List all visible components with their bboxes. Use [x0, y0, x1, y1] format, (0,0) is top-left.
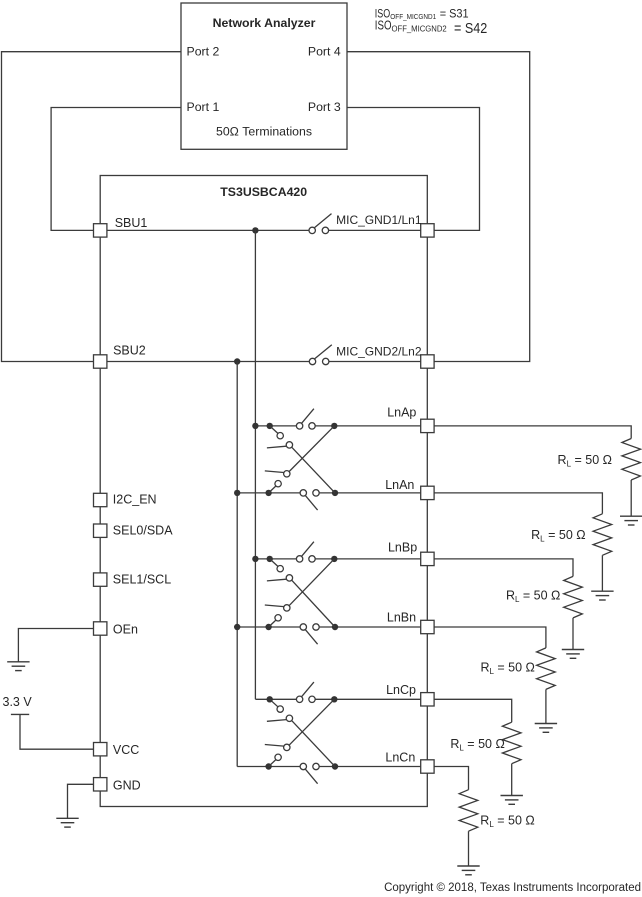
switch cross C2 contact a: [275, 754, 281, 760]
ground at OEn: [7, 662, 29, 671]
pin LnAn: [421, 486, 434, 499]
switch cross B2 lever: [265, 605, 284, 607]
svg-text:= S31: = S31: [440, 6, 469, 20]
svg-text:MIC_GND2/Ln2: MIC_GND2/Ln2: [336, 344, 422, 358]
wire cross B stub from n: [269, 620, 276, 627]
switch cross A1 contact b: [286, 442, 292, 448]
switch cross B1 lever: [267, 579, 286, 581]
switch cross A1 lever: [267, 446, 286, 448]
switch cross A1 contact a: [277, 433, 283, 439]
node LnBn junction 2: [265, 624, 271, 630]
pin SBU2: [94, 355, 107, 368]
wire LnAp to resistor RL1: [434, 426, 631, 439]
switch cross B2 contact a: [275, 615, 281, 621]
wire resistor RL6 to ground: [468, 831, 470, 866]
switch cross A2 contact b: [284, 471, 290, 477]
switch cross B1 contact a: [277, 566, 283, 572]
wire LnAp line left: [255, 425, 296, 427]
wire cross B1 diagonal to n: [292, 580, 335, 627]
svg-text:Port 3: Port 3: [308, 100, 341, 114]
switch S1 contact b: [322, 227, 328, 233]
resistor RL2: [593, 514, 612, 556]
wire switch S1 to MIC_GND1: [329, 229, 421, 231]
wire SBU1 to switch S1: [107, 229, 309, 231]
wire OEn to ground: [18, 629, 93, 662]
switch LnAn contact a: [300, 490, 306, 496]
svg-text:= S42: = S42: [454, 20, 487, 37]
switch S2 contact b: [323, 358, 329, 364]
svg-text:LnBn: LnBn: [387, 610, 416, 624]
svg-text:SEL0/SDA: SEL0/SDA: [113, 524, 173, 538]
wire resistor RL5 to ground: [511, 764, 513, 796]
switch LnBn contact a: [300, 624, 306, 630]
node LnCn junction 3: [332, 763, 338, 769]
svg-text:LnCp: LnCp: [386, 683, 416, 697]
svg-text:Port 1: Port 1: [187, 100, 220, 114]
wire LnCp line left: [255, 698, 296, 700]
resistor RL4: [537, 648, 556, 690]
svg-text:RL = 50 Ω: RL = 50 Ω: [506, 588, 560, 604]
wire LnCn line left: [237, 766, 300, 768]
switch S2 contact a: [309, 358, 315, 364]
pin GND: [94, 778, 107, 791]
node LnCn junction 2: [265, 763, 271, 769]
wire cross A1 diagonal to n: [292, 447, 335, 493]
svg-text:Copyright © 2018, Texas Instru: Copyright © 2018, Texas Instruments Inco…: [384, 882, 641, 894]
switch S1 contact a: [309, 227, 315, 233]
switch LnCp lever: [302, 682, 314, 697]
node LnBp bus1 junction: [252, 556, 258, 562]
wire LnCp to resistor RL5: [434, 699, 512, 722]
ground below RL6: [457, 866, 479, 875]
svg-text:RL = 50 Ω: RL = 50 Ω: [531, 528, 585, 544]
node LnBn junction 3: [332, 624, 338, 630]
wire LnCp line right: [315, 698, 421, 700]
wire cross A2 diagonal to p: [289, 426, 334, 472]
wire cross B2 diagonal to p: [289, 559, 334, 606]
switch cross B1 contact b: [286, 575, 292, 581]
switch LnCp contact b: [309, 696, 315, 702]
network analyzer box: [181, 3, 347, 149]
wire cross A stub from n: [269, 486, 276, 493]
node LnAp junction 2: [267, 423, 273, 429]
node LnAn bus2 junction: [234, 490, 240, 496]
ground at GND pin: [56, 818, 78, 827]
svg-text:TS3USBCA420: TS3USBCA420: [220, 185, 307, 199]
pin LnCp: [421, 693, 434, 706]
wire LnAn line left: [237, 492, 300, 494]
ground below RL5: [501, 796, 523, 805]
wire resistor RL2 to ground: [601, 555, 603, 591]
ISO_OFF_MICGND2 = S42 label: [375, 17, 488, 37]
wire SBU2 bus vertical: [236, 362, 238, 767]
ISO_OFF_MICGND1 = S31 label: [375, 6, 469, 21]
pin VCC: [94, 743, 107, 756]
pin LnCn: [421, 760, 434, 773]
ground below RL1: [620, 516, 642, 525]
pin SEL1/SCL: [94, 573, 107, 586]
pin MIC_GND2/Ln2: [421, 355, 434, 368]
wire port 3 to MIC_GND1: [347, 108, 480, 231]
switch LnAn lever: [305, 496, 317, 511]
pin MIC_GND1/Ln1: [421, 224, 434, 237]
wire SBU2 to switch S2: [107, 361, 309, 363]
svg-text:Network Analyzer: Network Analyzer: [213, 16, 316, 30]
switch cross C1 contact a: [277, 706, 283, 712]
switch LnAp contact b: [309, 423, 315, 429]
svg-text:LnAp: LnAp: [387, 406, 416, 420]
svg-text:RL = 50 Ω: RL = 50 Ω: [480, 661, 534, 677]
svg-text:ISO: ISO: [375, 17, 392, 32]
switch LnCn contact a: [300, 763, 306, 769]
pin LnAp: [421, 419, 434, 432]
switch LnAn contact b: [313, 490, 319, 496]
wire LnBn to resistor RL4: [434, 627, 546, 648]
svg-text:Port 4: Port 4: [308, 44, 341, 58]
svg-text:LnAn: LnAn: [385, 478, 414, 492]
wire port 4 to MIC_GND2: [347, 52, 530, 362]
wire LnCn to resistor RL6: [434, 767, 468, 790]
ground below RL2: [591, 591, 613, 600]
pin LnBn: [421, 620, 434, 633]
svg-text:SBU1: SBU1: [115, 216, 148, 230]
svg-text:OFF_MICGND2: OFF_MICGND2: [392, 24, 448, 33]
node LnAn junction 2: [265, 490, 271, 496]
svg-text:LnCn: LnCn: [385, 750, 415, 764]
ground below RL4: [535, 724, 557, 733]
wire 3.3 V to VCC: [20, 714, 94, 749]
wire cross B stub from p: [270, 559, 278, 567]
node LnCp junction 2: [267, 696, 273, 702]
svg-text:SEL1/SCL: SEL1/SCL: [113, 573, 171, 587]
svg-text:Port 2: Port 2: [187, 44, 220, 58]
svg-text:I2C_EN: I2C_EN: [113, 493, 157, 507]
switch LnBn contact b: [313, 624, 319, 630]
wire LnBp to resistor RL3: [434, 559, 573, 577]
svg-text:MIC_GND1/Ln1: MIC_GND1/Ln1: [336, 213, 422, 227]
wire cross C stub from p: [270, 699, 278, 707]
switch cross C1 lever: [267, 720, 286, 722]
svg-text:OFF_MICGND1: OFF_MICGND1: [390, 12, 436, 21]
wire resistor RL3 to ground: [572, 618, 574, 650]
svg-text:OEn: OEn: [113, 622, 138, 636]
pin OEn: [94, 622, 107, 635]
wire cross C1 diagonal to n: [292, 721, 335, 767]
wire GND to ground: [68, 784, 94, 818]
TS3USBCA420 box: [100, 176, 427, 807]
wire LnBn line right: [319, 626, 421, 628]
wire LnAn line right: [319, 492, 421, 494]
switch cross C2 contact b: [284, 744, 290, 750]
pin SBU1: [94, 224, 107, 237]
switch LnCn contact b: [313, 763, 319, 769]
3.3 V supply bar: [11, 713, 29, 715]
node LnBp junction 2: [267, 556, 273, 562]
node LnAp bus1 junction: [252, 423, 258, 429]
switch S1 lever: [314, 214, 331, 228]
svg-text:3.3 V: 3.3 V: [3, 695, 33, 709]
wire port 1 to SBU1: [51, 108, 181, 231]
node LnBn bus2 junction: [234, 624, 240, 630]
wire port 2 to SBU2: [2, 52, 182, 362]
wire resistor RL1 to ground: [630, 480, 632, 516]
node LnBp junction 3: [331, 556, 337, 562]
svg-text:VCC: VCC: [113, 743, 139, 757]
node SBU1 bus junction: [252, 227, 258, 233]
wire cross A stub from p: [270, 426, 278, 434]
svg-text:RL = 50 Ω: RL = 50 Ω: [450, 737, 504, 753]
wire switch S2 to MIC_GND2: [329, 361, 421, 363]
switch LnAp lever: [302, 409, 314, 424]
switch S2 lever: [315, 345, 332, 359]
wire LnAp line right: [315, 425, 421, 427]
switch cross A2 contact a: [275, 481, 281, 487]
wire SBU1 bus vertical: [254, 230, 256, 699]
switch LnBp contact a: [296, 556, 302, 562]
wire cross C2 diagonal to p: [289, 699, 334, 745]
svg-text:RL = 50 Ω: RL = 50 Ω: [480, 813, 534, 829]
resistor RL5: [502, 722, 521, 764]
ground below RL3: [562, 650, 584, 659]
switch LnBn lever: [305, 630, 317, 645]
wire cross C stub from n: [269, 760, 276, 767]
pin LnBp: [421, 552, 434, 565]
pin I2C_EN: [94, 493, 107, 506]
switch LnBp contact b: [309, 556, 315, 562]
node LnAp junction 3: [331, 423, 337, 429]
wire LnBp line left: [255, 558, 296, 560]
switch LnCp contact a: [296, 696, 302, 702]
resistor RL6: [459, 790, 478, 832]
svg-text:50Ω Terminations: 50Ω Terminations: [216, 124, 312, 138]
switch cross A2 lever: [265, 471, 284, 473]
resistor RL3: [564, 576, 583, 618]
wire LnCn line right: [319, 766, 421, 768]
pin SEL0/SDA: [94, 524, 107, 537]
switch LnAp contact a: [296, 423, 302, 429]
switch cross B2 contact b: [284, 605, 290, 611]
svg-text:RL = 50 Ω: RL = 50 Ω: [558, 453, 612, 469]
wire resistor RL4 to ground: [545, 689, 547, 723]
node LnCp junction 3: [331, 696, 337, 702]
switch LnBp lever: [302, 542, 314, 557]
wire LnBp line right: [315, 558, 421, 560]
switch LnCn lever: [305, 769, 317, 784]
wire LnBn line left: [237, 626, 300, 628]
node SBU2 bus junction: [234, 358, 240, 364]
wire LnAn to resistor RL2: [434, 493, 602, 514]
svg-text:SBU2: SBU2: [113, 344, 146, 358]
switch cross C1 contact b: [286, 715, 292, 721]
resistor RL1: [622, 439, 641, 481]
node LnAn junction 3: [332, 490, 338, 496]
svg-text:GND: GND: [113, 779, 141, 793]
switch cross C2 lever: [265, 745, 284, 747]
svg-text:LnBp: LnBp: [388, 541, 417, 555]
